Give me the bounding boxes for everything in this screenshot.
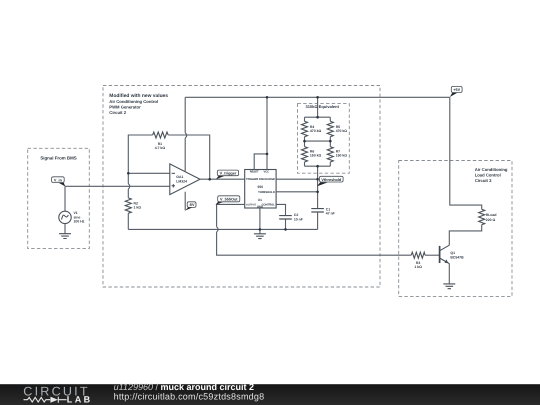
resistor R5: [327, 121, 347, 136]
svg-text:BC547B: BC547B: [450, 255, 464, 259]
svg-text:DISCHARGE: DISCHARGE: [259, 178, 275, 181]
resistor R6: [302, 147, 322, 162]
node V_in label: [52, 177, 66, 187]
svg-text:CONTROL: CONTROL: [262, 203, 276, 206]
svg-text:Signal From BMS: Signal From BMS: [40, 156, 76, 161]
dashed box: 310k Equivalent: [298, 104, 350, 174]
capacitor C2: [279, 213, 303, 221]
wire: 555 OUTPUT down and right to R3: [217, 204, 412, 255]
svg-text:Circuit 2: Circuit 2: [109, 110, 126, 115]
svg-text:100 Hz: 100 Hz: [74, 220, 85, 224]
wire hop: output wire over ground bus: [217, 227, 219, 232]
junction dot: threshold node / discharge: [316, 178, 319, 181]
wire: 555 VCC pin to +5V rail: [266, 97, 268, 169]
footer logo resistor glyph: [24, 397, 51, 402]
svg-text:Vthreshold: Vthreshold: [321, 178, 342, 182]
svg-text:470 kΩ: 470 kΩ: [336, 129, 348, 133]
junction dot: network mid bus left: [303, 140, 306, 143]
wire hop: R2 leg over +input wire: [128, 184, 130, 189]
wire: network bottom bus: [305, 162, 331, 166]
svg-text:Air Conditioning Control: Air Conditioning Control: [109, 99, 158, 104]
footer title line: [114, 382, 254, 392]
svg-text:+5V: +5V: [453, 88, 460, 92]
svg-text:TRIGGER: TRIGGER: [246, 178, 258, 181]
wire: 555 DISCHARGE to threshold node: [276, 178, 318, 180]
capacitor C1: [311, 207, 334, 215]
wire: R3 to Q1 base: [425, 254, 439, 256]
wire: op-amp inverting input: [128, 172, 170, 174]
wire: op-amp output to 555 TRIGGER: [200, 178, 245, 180]
svg-text:OUTPUT: OUTPUT: [246, 203, 257, 206]
footer logo LAB: [67, 395, 93, 405]
wire: network top bus: [305, 117, 331, 121]
junction dot: RESET jog / VCC: [266, 153, 269, 156]
svg-text:V_555Out: V_555Out: [220, 198, 238, 202]
junction dot: op-amp output / R1 / trigger: [208, 178, 211, 181]
svg-text:Circuit 3: Circuit 3: [475, 178, 492, 183]
svg-text:1 kΩ: 1 kΩ: [414, 265, 422, 269]
svg-text:PWM Generator: PWM Generator: [109, 104, 141, 109]
svg-text:150 kΩ: 150 kΩ: [336, 154, 348, 158]
IC U1 555 timer body: [245, 170, 276, 209]
wire: C2 bottom to ground bus: [285, 219, 287, 229]
wire: ground bus under 555: [128, 228, 317, 230]
svg-text:470 kΩ: 470 kΩ: [310, 129, 322, 133]
wire: 555 THRESHOLD to threshold node: [276, 191, 318, 193]
svg-text:555: 555: [258, 185, 264, 189]
svg-text:Air Conditioning: Air Conditioning: [475, 167, 508, 172]
ground (Q1): [443, 284, 455, 289]
svg-text:OA1: OA1: [176, 175, 183, 179]
junction dot: rail / network: [316, 96, 319, 99]
junction dot: rail / VCC: [266, 96, 269, 99]
node V_555Out label: [215, 196, 239, 205]
node -5V label: [185, 202, 196, 211]
svg-text:Load Control: Load Control: [475, 173, 501, 178]
wire: op-amp V- supply: [184, 192, 186, 211]
resistor R4: [302, 121, 322, 136]
pin label DISCHARGE: [259, 178, 275, 181]
wire: R2 bottom to ground bus: [127, 213, 129, 229]
footer logo diode glyph: [50, 397, 66, 403]
pin label RESET: [250, 171, 259, 174]
node Vthreshold label: [317, 176, 343, 186]
wire: Q1 emitter to ground: [448, 264, 450, 284]
wire: op-amp V+ supply feed: [184, 97, 186, 171]
wire: 555 GND pin: [259, 208, 261, 234]
dashed box: Air Conditioning Load Control Circuit 3: [399, 161, 512, 297]
svg-text:LM324: LM324: [176, 180, 187, 184]
resistor R1: [153, 132, 169, 150]
node V_trigger label: [216, 170, 239, 179]
wire: 555 CONTROL to C2: [276, 204, 285, 215]
pin label CONTROL: [262, 203, 276, 206]
svg-text:RESET: RESET: [250, 171, 259, 174]
junction dot: network mid bus right: [329, 140, 332, 143]
footer url line: [114, 392, 265, 402]
wire: R2 top leg: [127, 173, 129, 198]
svg-text:THRESHOLD: THRESHOLD: [258, 191, 275, 194]
svg-text:VCC: VCC: [263, 171, 269, 174]
svg-text:V_trigger: V_trigger: [220, 172, 237, 176]
svg-text:V_in: V_in: [54, 178, 63, 182]
wire: +5V rail to resistor network: [317, 97, 319, 117]
pin label THRESHOLD: [258, 191, 275, 194]
wire: V_in to op-amp non-inverting input: [65, 185, 170, 187]
dashed box: Modified with new values / PWM Generator Circuit 2: [103, 86, 380, 288]
wire: R1 feedback left leg: [128, 135, 152, 173]
svg-text:47 nF: 47 nF: [326, 212, 335, 216]
pin label VCC: [263, 171, 269, 174]
resistor R3: [411, 252, 425, 269]
svg-text:1 kΩ: 1 kΩ: [134, 205, 142, 209]
op-amp OA1 LM324: [170, 164, 200, 195]
dashed box: Signal From BMS (Circuit 1): [28, 148, 90, 248]
wire: C1 bottom to ground bus: [317, 212, 319, 229]
pin label OUTPUT: [246, 203, 257, 206]
node +5V label: [450, 86, 462, 97]
wire: +5V rail: [185, 96, 450, 98]
wire: network tail down to C1: [317, 166, 319, 208]
resistor R2: [125, 198, 141, 213]
junction dot: inverting node R1/R2: [127, 172, 130, 175]
wire: RLoad to Q1 collector: [449, 225, 481, 246]
svg-text:http://circuitlab.com/c59ztds8: http://circuitlab.com/c59ztds8smdg8: [114, 392, 265, 402]
wire: +5V drop to RLoad: [450, 97, 482, 209]
resistor R7: [327, 147, 347, 162]
pin label TRIGGER: [246, 178, 258, 181]
junction dot: network bottom bus: [316, 165, 319, 168]
svg-text:LAB: LAB: [67, 395, 93, 405]
svg-text:4.7 kΩ: 4.7 kΩ: [155, 146, 166, 150]
svg-text:U1: U1: [258, 198, 262, 202]
svg-text:10 nF: 10 nF: [294, 217, 303, 221]
resistor RLoad: [479, 209, 497, 224]
wire: 555 RESET pin to +5V: [254, 154, 267, 170]
wire hop: V+ feed over R1 wire: [185, 133, 187, 138]
junction dot: ground bus / C2: [284, 228, 287, 231]
wire: R1 right leg to op-amp output: [168, 135, 210, 179]
svg-text:310kΩ Equivalent: 310kΩ Equivalent: [305, 104, 339, 109]
voltage source V1: [59, 186, 85, 233]
footer logo CIRCUIT: [23, 385, 89, 399]
svg-text:150 kΩ: 150 kΩ: [310, 154, 322, 158]
footer bar: [0, 384, 540, 405]
junction dot: threshold node / threshold pin: [316, 191, 319, 194]
wire: network middle bus: [305, 137, 331, 147]
ground (V1): [59, 234, 71, 239]
transistor Q1 BC547B: [440, 245, 465, 263]
svg-text:220 Ω: 220 Ω: [486, 218, 496, 222]
junction dot: ground bus / 555 GND: [259, 228, 262, 231]
ground (555): [254, 234, 266, 239]
svg-text:-5V: -5V: [189, 203, 195, 207]
pin label GND: [257, 206, 263, 209]
junction dot: network top bus: [316, 116, 319, 119]
svg-text:RLoad: RLoad: [486, 213, 497, 217]
